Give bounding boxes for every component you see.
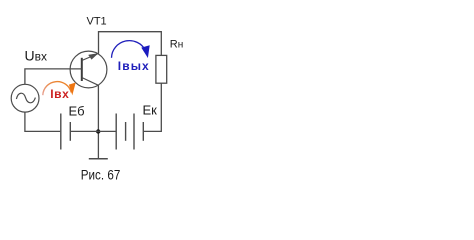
label Eк [143, 103, 158, 118]
current arrow Iвых [112, 41, 150, 58]
wire top rail collector to resistor [99, 32, 162, 56]
wire AC source to battery Eб [25, 112, 60, 131]
wire node to battery Eк [98, 130, 115, 132]
label Iвых [118, 59, 150, 73]
label Rн [170, 38, 183, 50]
svg-text:Iвх: Iвх [50, 87, 69, 101]
battery Eк [116, 114, 143, 150]
wire emitter down to ground [97, 85, 99, 158]
svg-text:Uвх: Uвх [25, 48, 48, 64]
svg-text:Рис. 67: Рис. 67 [81, 167, 121, 183]
wire battery Eк to right rail [144, 83, 161, 131]
svg-text:Eк: Eк [143, 103, 158, 118]
label Iвх [50, 87, 69, 101]
battery Eб [61, 114, 71, 150]
AC source [11, 84, 39, 112]
wire base to AC source [25, 69, 82, 84]
current arrow Iвх [43, 82, 76, 96]
ground [89, 158, 108, 160]
caption Рис. 67 [81, 167, 121, 183]
label VT1 [87, 16, 107, 28]
svg-text:Eб: Eб [69, 103, 85, 118]
transistor VT1 [70, 51, 107, 88]
node junction dot [96, 129, 100, 133]
svg-text:Rн: Rн [170, 38, 183, 50]
label Uвх [25, 48, 48, 64]
wire battery Eб to node [71, 130, 98, 132]
svg-text:Iвых: Iвых [118, 59, 150, 73]
resistor Rн [156, 55, 167, 83]
label Eб [69, 103, 85, 118]
svg-text:VT1: VT1 [87, 16, 107, 28]
